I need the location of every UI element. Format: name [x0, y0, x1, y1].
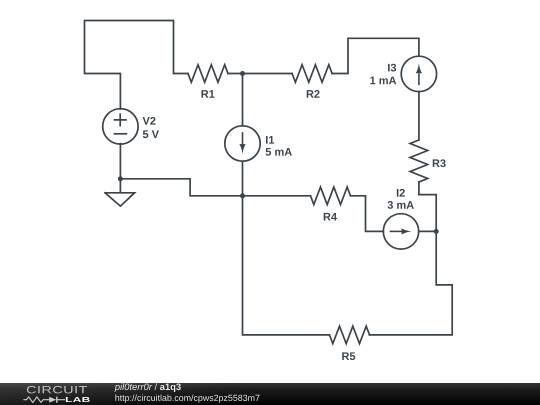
V2 minus sign [115, 133, 127, 135]
resistor R1 [188, 65, 228, 83]
arrow of I2 (right) [390, 228, 412, 234]
resistor R5 [330, 326, 370, 344]
wire node B down to bottom right corner [370, 231, 453, 335]
voltage source V2 [103, 109, 138, 144]
wire junction to R4 [243, 195, 311, 197]
resistor R2 [292, 65, 332, 83]
arrow of I3 (up) [416, 63, 422, 85]
ground [105, 179, 135, 206]
wire R2 to I3 top [332, 38, 419, 73]
wire I1 bottom to junction [242, 161, 244, 196]
wire node A to I1 top [242, 74, 244, 126]
wire R5 left to long vertical [243, 196, 330, 335]
wire ground node to middle row [120, 179, 242, 196]
logo diode [49, 397, 56, 403]
V2 plus sign [115, 114, 127, 125]
logo CIRCUIT text [27, 386, 87, 393]
footer url text [115, 394, 259, 402]
current source I2 [383, 214, 418, 249]
label R4 [324, 213, 337, 221]
arrow of I1 (down) [239, 132, 245, 154]
current source I1 [225, 126, 260, 161]
wire top-left loop from V2 top [85, 21, 189, 110]
wire V2 bottom to ground node [119, 144, 121, 179]
label I3 name [388, 64, 396, 72]
logo LAB text [66, 397, 90, 402]
wire I3 to R3 [418, 92, 420, 140]
resistor R3 [410, 140, 428, 182]
node ground junction dot [118, 176, 123, 181]
label R5 [342, 352, 355, 360]
wire R3 to node B [419, 182, 436, 231]
wire R1 to R2 through node A [228, 73, 292, 75]
wire I2 right to node B [419, 230, 437, 232]
current source I3 [401, 56, 436, 91]
label I1 value [266, 148, 292, 156]
label I1 name [266, 136, 274, 144]
label V2 name [143, 117, 156, 125]
node B junction dot [434, 229, 439, 234]
label V2 value [143, 130, 159, 138]
label R2 [307, 90, 320, 98]
logo resistor zigzag [23, 397, 49, 403]
node middle junction dot [240, 193, 245, 198]
resistor R4 [311, 187, 351, 205]
wire R4 to I2 left [351, 196, 384, 232]
label I3 value [370, 77, 396, 85]
footer author text [115, 383, 181, 392]
label I2 name [397, 189, 405, 197]
node A (junction dot R1/R2/I1) [240, 71, 245, 76]
label R1 [202, 90, 215, 98]
label I2 value [388, 201, 414, 209]
label R3 [433, 159, 446, 167]
